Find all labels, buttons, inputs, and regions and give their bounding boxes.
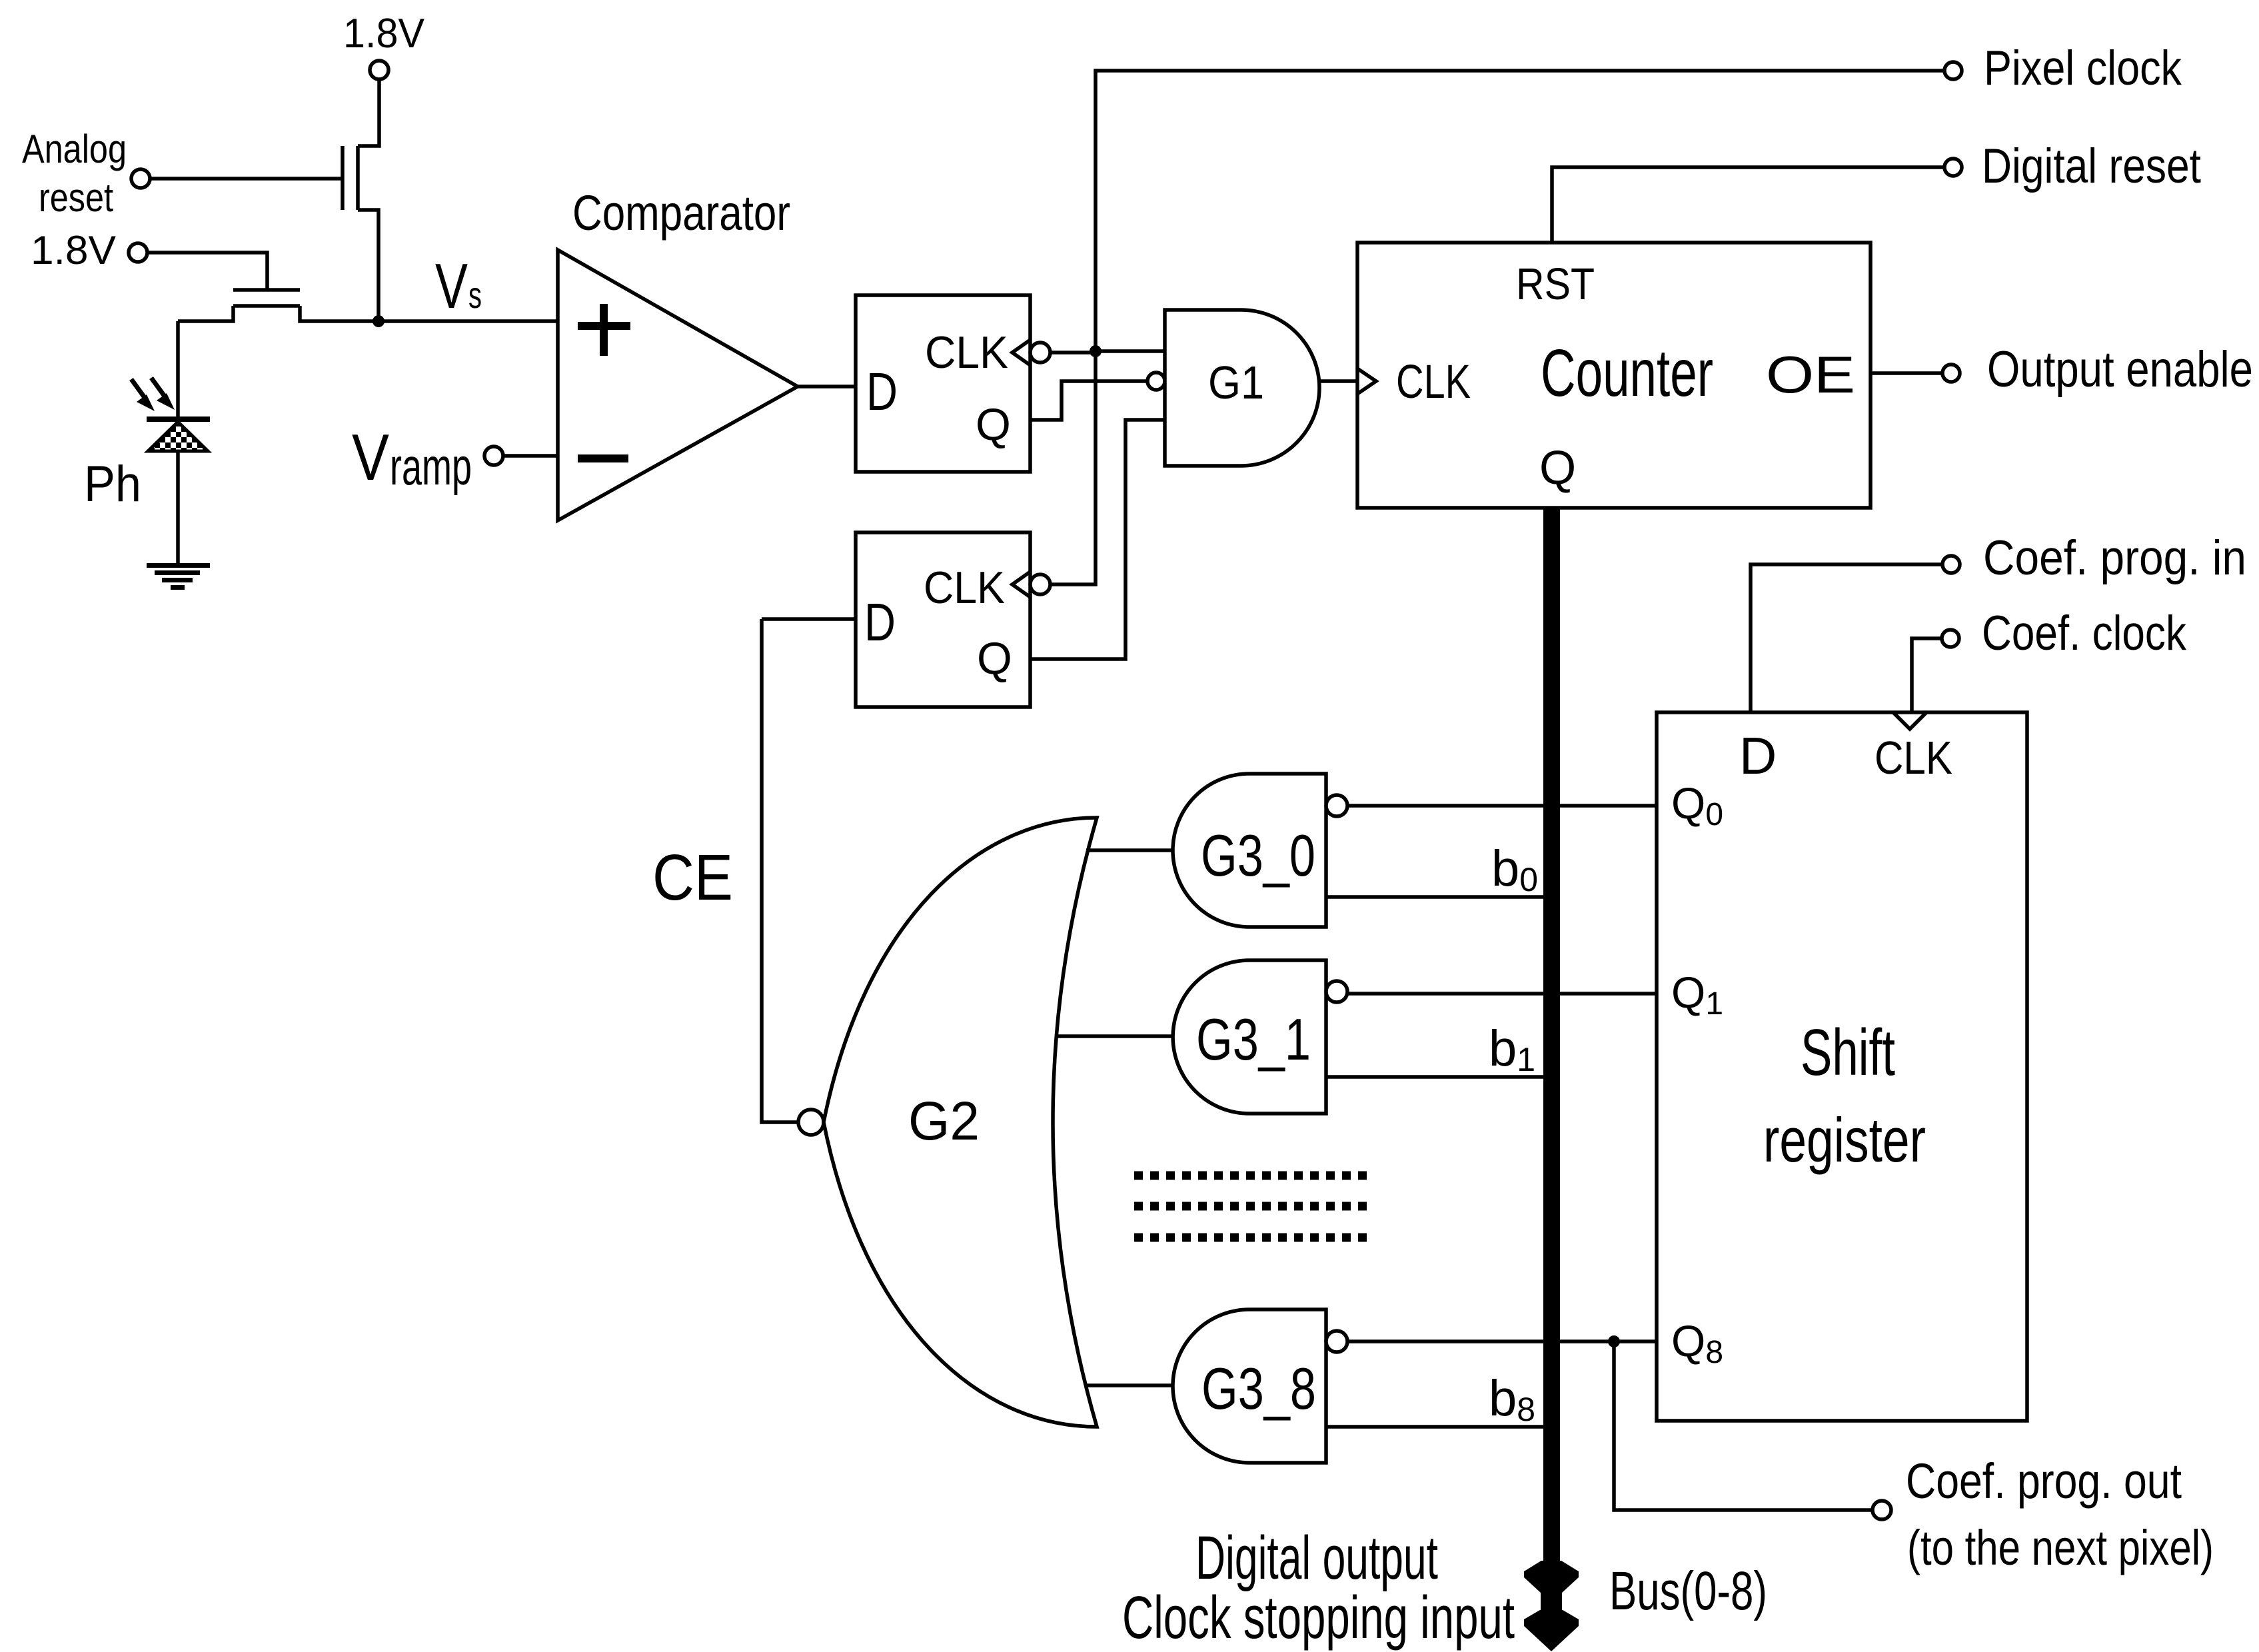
svg-text:G3_0: G3_0 — [1201, 822, 1315, 888]
svg-text:Digital reset: Digital reset — [1982, 139, 2201, 193]
svg-text:D: D — [1739, 726, 1777, 785]
svg-text:Output enable: Output enable — [1987, 341, 2253, 398]
svg-text:Analog: Analog — [22, 127, 127, 171]
svg-text:Bus(0-8): Bus(0-8) — [1609, 1561, 1767, 1621]
svg-text:OE: OE — [1766, 345, 1855, 404]
svg-text:Shift: Shift — [1801, 1016, 1895, 1089]
svg-text:G3_1: G3_1 — [1196, 1006, 1311, 1072]
svg-text:reset: reset — [39, 175, 113, 220]
svg-text:Q: Q — [977, 633, 1012, 684]
svg-text:CE: CE — [652, 841, 733, 914]
svg-text:Q: Q — [1539, 442, 1576, 494]
svg-text:Clock stopping input: Clock stopping input — [1122, 1585, 1515, 1651]
svg-text:RST: RST — [1516, 259, 1595, 309]
svg-text:V: V — [435, 251, 468, 322]
svg-text:G2: G2 — [908, 1091, 980, 1152]
svg-text:G3_8: G3_8 — [1201, 1355, 1316, 1421]
svg-text:D: D — [864, 592, 896, 652]
svg-text:Pixel clock: Pixel clock — [1984, 41, 2182, 95]
svg-text:CLK: CLK — [1875, 732, 1952, 784]
svg-text:ramp: ramp — [390, 437, 472, 496]
svg-text:(to the next pixel): (to the next pixel) — [1907, 1520, 2214, 1575]
svg-text:CLK: CLK — [1396, 356, 1471, 409]
svg-text:Digital output: Digital output — [1195, 1524, 1438, 1592]
svg-text:Coef. clock: Coef. clock — [1982, 606, 2186, 660]
svg-text:V: V — [352, 420, 389, 494]
svg-text:s: s — [468, 274, 482, 316]
svg-text:Counter: Counter — [1541, 336, 1713, 411]
svg-text:Coef. prog. in: Coef. prog. in — [1983, 531, 2246, 585]
svg-text:1.8V: 1.8V — [31, 228, 116, 273]
svg-text:Coef. prog. out: Coef. prog. out — [1906, 1453, 2182, 1509]
svg-text:Ph: Ph — [84, 456, 141, 512]
svg-text:G1: G1 — [1208, 357, 1264, 409]
svg-text:1.8V: 1.8V — [343, 11, 425, 57]
svg-text:CLK: CLK — [925, 327, 1008, 378]
svg-text:Q: Q — [976, 399, 1011, 450]
svg-text:Comparator: Comparator — [572, 185, 790, 241]
svg-text:CLK: CLK — [924, 562, 1005, 613]
svg-text:D: D — [866, 362, 898, 421]
svg-text:register: register — [1763, 1105, 1926, 1175]
